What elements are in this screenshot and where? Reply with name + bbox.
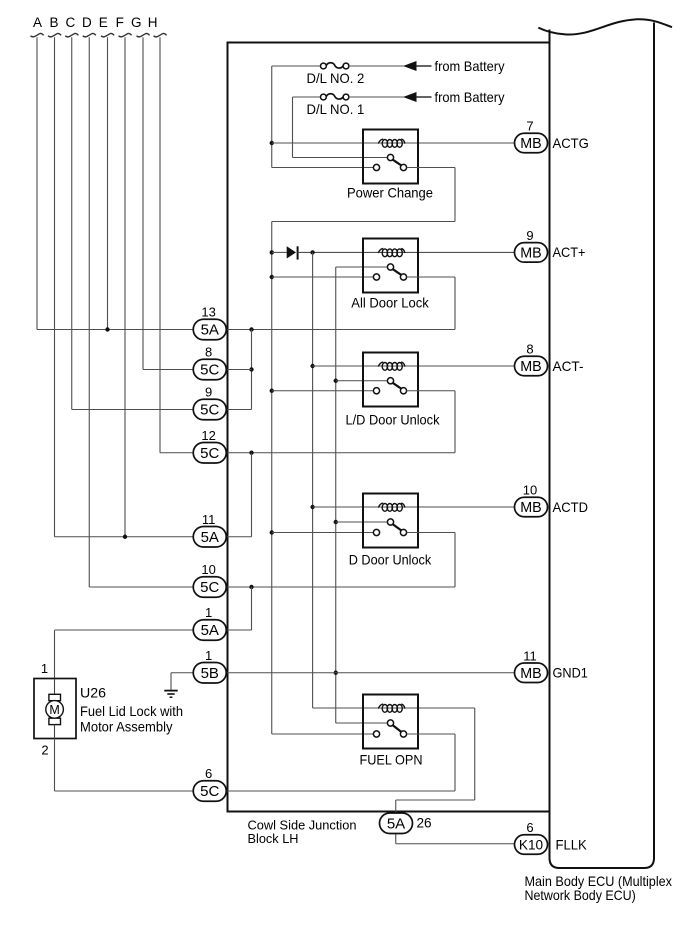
svg-text:5C: 5C <box>200 362 219 379</box>
svg-text:D Door Unlock: D Door Unlock <box>349 553 432 568</box>
wire 5A26 to K10 horizontal <box>396 843 515 845</box>
connector 5A pin 1 <box>193 620 226 641</box>
wire H vertical <box>159 37 161 453</box>
wire 5C12 internal <box>227 452 455 454</box>
wire L/D output down to 5C12 <box>454 391 456 453</box>
relay L/D Door Unlock <box>363 353 418 407</box>
fuse D/L NO. 2 <box>321 63 349 69</box>
wire D coil line to MB10 <box>313 506 515 508</box>
svg-text:Network Body ECU): Network Body ECU) <box>525 888 636 903</box>
wire C vertical <box>71 37 73 409</box>
wire FUEL OPN output right <box>407 733 455 735</box>
wire fuse D/L NO. 1 left lead <box>293 96 321 98</box>
wire 5A26 to K10 drop <box>395 833 397 844</box>
connector K10 pin 6 <box>515 835 548 855</box>
wire L/D output right <box>407 390 455 392</box>
svg-text:Block LH: Block LH <box>248 831 299 846</box>
svg-text:Main Body ECU (Multiplex: Main Body ECU (Multiplex <box>525 874 673 889</box>
relay All Door Lock <box>363 239 418 293</box>
svg-text:MB: MB <box>520 359 541 375</box>
junction coil bus / D coil <box>310 505 314 509</box>
svg-text:5B: 5B <box>201 665 219 682</box>
junction E on 5A13 wire <box>105 327 109 331</box>
svg-text:from Battery: from Battery <box>435 59 505 74</box>
svg-text:MB: MB <box>520 500 541 516</box>
wire ground bus vertical <box>335 267 337 723</box>
wire 5C8 internal <box>227 369 252 371</box>
svg-text:ACT-: ACT- <box>553 359 584 374</box>
svg-text:MB: MB <box>520 246 541 262</box>
node D <box>82 15 96 37</box>
wire G to connector 5C pin8 <box>143 369 193 371</box>
wire Power Change coil line to MB7 <box>272 142 515 144</box>
svg-text:C: C <box>66 15 76 30</box>
Cowl Side Junction Block LH box <box>228 43 549 812</box>
svg-text:ACTG: ACTG <box>553 136 589 151</box>
svg-text:8: 8 <box>526 342 533 357</box>
junction ground bus / L/D common <box>334 379 338 383</box>
svg-text:FUEL OPN: FUEL OPN <box>360 753 423 768</box>
wire All Door Lock output right <box>407 276 455 278</box>
svg-text:F: F <box>116 15 124 30</box>
svg-text:1: 1 <box>41 661 48 676</box>
wire D output right <box>407 532 455 534</box>
wire fuse D/L NO. 2 right lead <box>349 65 404 67</box>
connector 5C pin 9 <box>193 399 226 420</box>
connector 5A pin 13 <box>193 319 226 340</box>
diode <box>287 246 298 259</box>
wire L/D coil line to MB8 <box>313 365 515 367</box>
node F <box>116 15 132 37</box>
wire All Door Lock contact from bus <box>272 276 374 278</box>
wire A vertical <box>36 37 38 329</box>
svg-text:13: 13 <box>201 305 215 320</box>
svg-text:M: M <box>49 703 59 717</box>
connector MB pin 11 <box>515 663 548 683</box>
svg-text:10: 10 <box>523 483 537 498</box>
wire Power Change NC contact from fuse2 bus <box>272 167 374 169</box>
wire fuse1 drop to Power Change common <box>292 97 294 158</box>
node E <box>99 15 114 37</box>
junction 5A13 / internal bus <box>249 327 253 331</box>
junction bus / diode anode <box>270 250 274 254</box>
wire ground drop <box>170 673 172 690</box>
wire FUEL OPN coil line <box>313 707 475 709</box>
wire L/D contact from bus <box>272 390 374 392</box>
junction diode cathode / coil bus <box>310 250 314 254</box>
junction F on 5A11 wire <box>123 535 127 539</box>
svg-text:9: 9 <box>526 228 533 243</box>
connector MB pin 8 <box>515 356 548 376</box>
svg-text:L/D Door Unlock: L/D Door Unlock <box>346 413 440 428</box>
wire 5C9 internal <box>227 409 252 411</box>
junction coil bus / L/D coil <box>310 364 314 368</box>
svg-text:G: G <box>131 15 142 30</box>
wire F vertical <box>124 37 126 537</box>
junction fuse2 bus / coil line <box>270 141 274 145</box>
wire D to connector 5C pin10 <box>89 586 193 588</box>
junction 5C10 / internal bus <box>249 585 253 589</box>
junction 5C12 / internal bus <box>249 451 253 455</box>
wire 5C6 internal <box>227 790 455 792</box>
connector 5B pin 1 <box>193 663 226 684</box>
svg-text:ACTD: ACTD <box>553 500 589 515</box>
connector MB pin 10 <box>515 497 548 517</box>
wire Power Change output right <box>407 167 455 169</box>
relay D Door Unlock <box>363 494 418 548</box>
wire B/F to connector 5A pin11 <box>55 536 194 538</box>
connector MB pin 9 <box>515 243 548 263</box>
svg-text:5C: 5C <box>200 445 219 462</box>
relay Power Change <box>363 130 418 184</box>
wire Power Change output down <box>454 168 456 222</box>
wire 5B to ground <box>171 672 193 674</box>
svg-text:1: 1 <box>205 605 212 620</box>
svg-text:5C: 5C <box>200 402 219 419</box>
svg-text:8: 8 <box>205 345 212 360</box>
wire FUEL OPN common <box>336 722 388 724</box>
svg-text:All Door Lock: All Door Lock <box>351 296 429 311</box>
wire C to connector 5C pin9 <box>72 409 193 411</box>
junction internal bus / 5C8 <box>249 367 253 371</box>
svg-text:D: D <box>82 15 92 30</box>
junction bus / All Door Lock contact <box>270 275 274 279</box>
svg-text:A: A <box>33 15 42 30</box>
relay FUEL OPN <box>363 695 418 749</box>
wire internal bus 5A13-5C8-5C9 <box>251 330 253 410</box>
wire internal bus 5C12-5A11 <box>251 453 253 537</box>
wire fuse2 drop to Power Change <box>271 66 273 168</box>
svg-text:1: 1 <box>205 648 212 663</box>
from Battery arrow 1 <box>403 61 432 71</box>
wire fuse D/L NO. 1 right lead <box>349 96 404 98</box>
wire D output down to 5C10 <box>454 533 456 588</box>
connector MB pin 7 <box>515 133 548 153</box>
wire A/E to connector 5A pin13 <box>37 329 193 331</box>
ground <box>164 691 177 698</box>
wire H to connector 5C pin12 <box>160 452 193 454</box>
svg-text:GND1: GND1 <box>553 666 588 681</box>
wire U26 pin2 down <box>54 739 56 792</box>
fuse D/L NO. 1 <box>321 94 349 100</box>
connector 5C pin 10 <box>193 577 226 598</box>
junction bus / L/D Door Unlock contact <box>270 389 274 393</box>
svg-text:5A: 5A <box>201 622 219 639</box>
svg-text:5A: 5A <box>201 322 219 339</box>
wire fuse D/L NO. 2 left lead <box>272 65 321 67</box>
node B <box>48 15 61 37</box>
svg-text:ACT+: ACT+ <box>553 245 586 260</box>
svg-text:Motor Assembly: Motor Assembly <box>80 720 173 735</box>
svg-text:5A: 5A <box>201 529 219 546</box>
svg-text:D/L NO. 1: D/L NO. 1 <box>307 102 365 117</box>
wire FUEL OPN contact from bus <box>272 733 374 735</box>
wire 5A1 internal <box>227 629 252 631</box>
wire D contact from bus <box>272 532 374 534</box>
node G <box>131 15 150 37</box>
connector 5C pin 12 <box>193 443 226 464</box>
wire 5A1 external <box>55 629 194 631</box>
junction bus / D Door Unlock contact <box>270 530 274 534</box>
svg-text:2: 2 <box>41 743 48 758</box>
wire internal bus 5C10-5A1 <box>251 587 253 630</box>
svg-text:5C: 5C <box>200 579 219 596</box>
svg-text:11: 11 <box>523 648 537 663</box>
svg-text:MB: MB <box>520 666 541 682</box>
wire All Door Lock common <box>336 266 388 268</box>
wire Power Change common from fuse1 <box>293 157 388 159</box>
Main Body ECU box <box>550 23 655 869</box>
wire coil return bus vertical <box>312 252 314 708</box>
wire All Door Lock coil line to MB9 <box>298 251 515 253</box>
wire 5A13 internal <box>227 329 455 331</box>
svg-text:7: 7 <box>526 119 533 134</box>
wire D vertical <box>88 37 90 587</box>
wire FUEL OPN coil down <box>474 708 476 800</box>
node C <box>65 15 78 37</box>
svg-text:26: 26 <box>417 816 432 831</box>
svg-text:D/L NO. 2: D/L NO. 2 <box>307 71 365 86</box>
svg-text:12: 12 <box>201 428 215 443</box>
wire into 5A26 <box>395 800 397 814</box>
svg-text:MB: MB <box>520 136 541 152</box>
wire FUEL OPN coil jog left <box>396 799 475 801</box>
wire GND1 5B to MB11 <box>227 672 515 674</box>
connector 5A pin 11 <box>193 527 226 548</box>
motor U26 Fuel Lid Lock with Motor Assembly <box>34 679 76 739</box>
wire G vertical <box>142 37 144 369</box>
svg-text:U26: U26 <box>80 686 106 701</box>
svg-text:10: 10 <box>201 562 215 577</box>
svg-text:E: E <box>99 15 108 30</box>
svg-text:K10: K10 <box>519 838 544 853</box>
wire 5A11 internal <box>227 536 252 538</box>
wire D common <box>336 521 388 523</box>
svg-text:5A: 5A <box>387 815 405 832</box>
wire diode anode lead <box>272 251 287 253</box>
wire FUEL OPN output down to 5C6 <box>454 734 456 791</box>
wire 5C10 internal <box>227 586 455 588</box>
node A <box>31 15 44 37</box>
svg-text:Fuel Lid Lock with: Fuel Lid Lock with <box>80 704 183 719</box>
svg-text:11: 11 <box>202 512 216 527</box>
svg-text:B: B <box>49 15 58 30</box>
wire All Door Lock output down to 5A13 <box>454 277 456 330</box>
svg-text:6: 6 <box>526 820 533 835</box>
wire U26 to 5C6 <box>55 790 194 792</box>
wire Power Change output left to bus <box>272 221 455 223</box>
junction ground bus / GND1 wire <box>334 671 338 675</box>
wire L/D common <box>336 380 388 382</box>
wire U26 pin1 up to 5A1 <box>54 630 56 679</box>
svg-text:9: 9 <box>205 385 212 400</box>
svg-text:6: 6 <box>205 766 212 781</box>
svg-text:Power Change: Power Change <box>347 186 433 201</box>
node H <box>148 15 167 37</box>
svg-text:from Battery: from Battery <box>435 90 505 105</box>
svg-text:FLLK: FLLK <box>556 837 588 852</box>
from Battery arrow 2 <box>403 92 432 102</box>
wire actuator supply bus vertical <box>271 222 273 735</box>
Main Body ECU torn-edge wave <box>538 19 672 34</box>
connector 5C pin 6 <box>193 781 226 802</box>
svg-text:5C: 5C <box>200 783 219 800</box>
svg-text:H: H <box>148 15 158 30</box>
wire E vertical <box>107 37 109 329</box>
wire B vertical <box>54 37 56 537</box>
connector 5A pin 26 <box>380 813 413 834</box>
connector 5C pin 8 <box>193 359 226 380</box>
junction ground bus / D common <box>334 520 338 524</box>
